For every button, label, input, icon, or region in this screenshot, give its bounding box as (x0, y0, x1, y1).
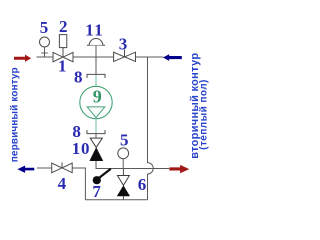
svg-text:7: 7 (92, 182, 101, 201)
svg-text:5: 5 (120, 130, 129, 149)
svg-text:1: 1 (58, 57, 67, 76)
arrow: secondary supply out (red, bottom right) (169, 165, 189, 173)
arrow: secondary return in (blue, top right) (163, 54, 182, 61)
valve 3 (ball valve on secondary return) (114, 50, 136, 62)
air vent 11 (87, 38, 105, 57)
valve 1 (thermostatic mixing valve body) (53, 48, 73, 62)
union 8 (bottom pump union) (87, 130, 105, 134)
svg-text:2: 2 (59, 17, 68, 36)
wire: return line through valve 4 (y=168) (37, 168, 85, 200)
arrow: primary supply in (red, top left) (14, 55, 31, 62)
wire: stem union to check valve 10 (95, 134, 97, 138)
valve 4 (ball valve on primary return) (52, 162, 72, 172)
wire: right riser with hop over supply line (148, 57, 154, 200)
svg-text:(теплый пол): (теплый пол) (198, 79, 209, 150)
svg-text:6: 6 (138, 175, 147, 194)
sensor 7 (remote temperature sensor bulb) (93, 169, 110, 184)
wire: top supply line (primary inlet, y=57) (37, 56, 164, 58)
svg-text:3: 3 (119, 35, 128, 54)
svg-text:первичный контур: первичный контур (10, 67, 21, 162)
wire: bottom bypass line (y=199.7) (85, 199, 147, 201)
check valve 6 (117, 169, 129, 200)
gauge 5 (right manometer) (118, 148, 129, 169)
svg-text:5: 5 (40, 18, 49, 37)
actuator 2 (thermo head on valve 1) (59, 35, 66, 48)
svg-text:4: 4 (58, 174, 67, 193)
pump 9 (circulation pump) (80, 86, 112, 118)
wire: check valve 10 down to corner and right to supply outlet (96, 161, 169, 169)
svg-text:9: 9 (93, 86, 102, 106)
svg-text:10: 10 (72, 139, 91, 158)
svg-text:11: 11 (85, 20, 104, 39)
svg-text:8: 8 (72, 122, 81, 141)
union 8 (top pump union) (87, 74, 105, 78)
check valve 10 (90, 138, 103, 161)
arrow: primary return out (blue, bottom left) (17, 166, 34, 173)
svg-text:8: 8 (74, 68, 83, 87)
wire: main vertical column x=96 from top line to union (95, 57, 97, 74)
wire: green pump stem between unions (95, 75, 97, 133)
gauge 5 (left manometer) (40, 37, 50, 57)
